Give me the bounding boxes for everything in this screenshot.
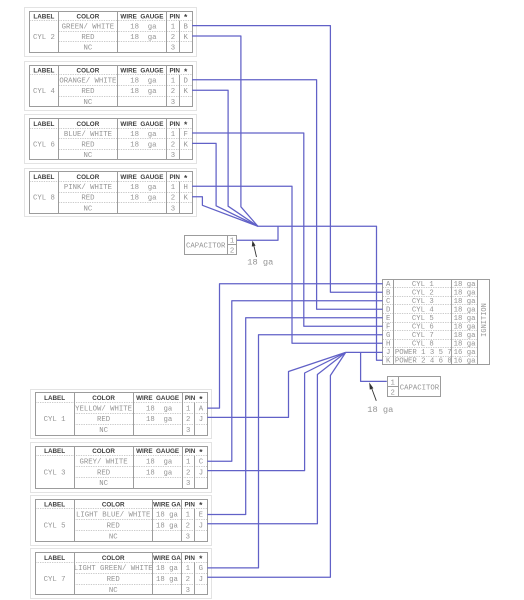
svg-text:LIGHT BLUE/ WHITE: LIGHT BLUE/ WHITE [76,512,150,520]
svg-text:B: B [386,290,391,298]
svg-text:PIN: PIN [184,501,195,508]
svg-text:2: 2 [186,576,190,584]
svg-text:LIGHT GREEN/ WHITE: LIGHT GREEN/ WHITE [74,565,153,573]
svg-text:NC: NC [99,480,108,488]
wire net J branch from CYL 1 pin 2 [207,352,345,417]
svg-text:PIN: PIN [185,395,196,402]
svg-text:PIN: PIN [169,121,180,128]
svg-text:H: H [184,184,188,192]
svg-text:WIRE GA: WIRE GA [153,501,181,508]
svg-text:*: * [184,120,188,130]
svg-text:RED: RED [81,141,95,149]
svg-text:18 ga: 18 ga [130,24,157,32]
svg-text:WIRE GAUGE: WIRE GAUGE [120,13,163,20]
svg-text:NC: NC [99,427,108,435]
svg-text:18 ga: 18 ga [156,565,179,573]
svg-text:PIN: PIN [185,448,196,455]
svg-text:*: * [199,447,203,457]
connector pinout table CYL 8 [25,169,197,217]
svg-text:CYL 6: CYL 6 [33,141,55,149]
svg-text:3: 3 [186,480,190,488]
capacitor C2 [387,377,440,398]
svg-text:RED: RED [107,576,121,584]
svg-text:18 ga: 18 ga [454,324,477,332]
svg-text:B: B [184,24,189,32]
connector pinout table CYL 6 [25,115,197,164]
connector U1 IGNITION [383,279,490,365]
capacitor C1 [185,236,238,256]
wire net K branch from CYL 6 pin 2 [192,143,258,226]
wire net K branch to capacitor C1 pin 1 [237,226,278,240]
connector pinout table CYL 1 [31,390,212,439]
svg-text:CYL 2: CYL 2 [412,290,434,298]
wire net A: CYL 1 pin 1 to IGNITION pin A [207,284,382,408]
svg-text:POWER 1 3 5 7: POWER 1 3 5 7 [395,349,452,357]
svg-text:1: 1 [391,380,396,388]
svg-text:C: C [386,298,391,306]
svg-text:18 ga: 18 ga [454,298,477,306]
wire net K branch from CYL 2 pin 2 [192,36,258,226]
svg-text:GREEN/ WHITE: GREEN/ WHITE [62,24,115,32]
svg-text:NC: NC [109,587,118,595]
svg-text:CYL 7: CYL 7 [44,576,66,584]
svg-text:*: * [184,66,188,76]
svg-text:WIRE GAUGE: WIRE GAUGE [136,448,179,455]
svg-text:18 ga: 18 ga [146,459,173,467]
connector pinout table CYL 2 [25,8,197,57]
connector pinout table CYL 4 [25,62,197,111]
svg-text:2: 2 [171,34,175,42]
wire net K branch from CYL 4 pin 2 [192,90,258,226]
svg-text:18 ga: 18 ga [156,576,179,584]
wire net H: CYL 8 pin 1 to IGNITION pin H [192,186,383,343]
svg-text:1: 1 [171,78,176,86]
svg-text:3: 3 [186,587,190,595]
svg-text:COLOR: COLOR [77,13,100,20]
svg-text:2: 2 [230,247,234,255]
svg-text:2: 2 [186,469,190,477]
svg-text:RED: RED [81,34,95,42]
svg-text:YELLOW/ WHITE: YELLOW/ WHITE [75,405,132,413]
svg-text:COLOR: COLOR [102,501,125,508]
svg-text:G: G [199,565,203,573]
leader arrow to capacitor C2 wire [369,382,376,400]
leader arrow to capacitor C1 wire [252,241,257,257]
svg-text:C: C [199,459,204,467]
svg-text:J: J [199,576,203,584]
svg-text:18 ga: 18 ga [130,184,157,192]
svg-text:18 ga: 18 ga [146,469,173,477]
svg-text:LABEL: LABEL [44,395,65,402]
svg-text:F: F [386,324,390,332]
svg-text:LABEL: LABEL [33,121,54,128]
wire net J branch from CYL 3 pin 2 [207,352,345,470]
svg-text:LABEL: LABEL [44,501,65,508]
svg-text:CYL 4: CYL 4 [412,307,435,315]
svg-text:D: D [386,307,391,315]
svg-text:E: E [386,315,390,323]
svg-text:18 ga: 18 ga [454,290,477,298]
svg-text:D: D [184,78,189,86]
svg-text:2: 2 [186,416,190,424]
svg-text:3: 3 [171,99,175,107]
svg-text:K: K [184,141,189,149]
svg-text:18 ga: 18 ga [130,131,157,139]
svg-text:COLOR: COLOR [77,68,100,75]
svg-text:16 ga: 16 ga [454,349,477,357]
wire net D: CYL 4 pin 1 to IGNITION pin D [192,80,383,309]
connector pinout table CYL 5 [31,496,212,546]
svg-text:ORANGE/ WHITE: ORANGE/ WHITE [59,78,116,86]
svg-text:F: F [184,131,188,139]
svg-text:CYL 1: CYL 1 [44,416,67,424]
wire net G: CYL 7 pin 1 to IGNITION pin G [207,335,382,568]
svg-text:*: * [199,394,203,404]
svg-text:*: * [184,12,188,22]
svg-text:PIN: PIN [184,555,195,562]
svg-text:LABEL: LABEL [44,448,65,455]
svg-text:18 ga: 18 ga [130,88,157,96]
svg-text:WIRE GAUGE: WIRE GAUGE [120,121,163,128]
svg-text:18 ga: 18 ga [130,34,157,42]
svg-text:18 ga: 18 ga [130,195,157,203]
wire net C: CYL 3 pin 1 to IGNITION pin C [207,301,382,462]
svg-text:RED: RED [107,523,121,531]
wire net K trunk to IGNITION pin K [258,226,383,360]
svg-text:BLUE/ WHITE: BLUE/ WHITE [64,131,112,139]
svg-text:CYL 2: CYL 2 [33,34,55,42]
svg-text:COLOR: COLOR [102,555,125,562]
svg-text:POWER 2 4 6 8: POWER 2 4 6 8 [395,358,452,366]
svg-text:COLOR: COLOR [77,174,100,181]
svg-text:PIN: PIN [169,174,180,181]
svg-text:NC: NC [84,45,93,53]
svg-text:18 ga: 18 ga [146,416,173,424]
wire net K branch from CYL 8 pin 2 [192,197,258,227]
svg-text:1: 1 [186,459,191,467]
svg-text:NC: NC [84,205,93,213]
wire net J trunk to IGNITION pin J [346,351,383,353]
svg-text:PIN: PIN [169,68,180,75]
svg-text:18 ga: 18 ga [454,307,477,315]
svg-text:CYL 8: CYL 8 [412,341,434,349]
svg-text:1: 1 [186,405,191,413]
connector pinout table CYL 3 [31,443,212,493]
svg-text:2: 2 [186,523,190,531]
svg-text:1: 1 [171,184,176,192]
svg-text:K: K [184,88,189,96]
svg-text:NC: NC [84,152,93,160]
svg-text:3: 3 [186,533,190,541]
svg-text:A: A [386,281,391,289]
wire net F: CYL 6 pin 1 to IGNITION pin F [192,133,383,326]
svg-text:COLOR: COLOR [92,448,115,455]
wire net E: CYL 5 pin 1 to IGNITION pin E [207,318,382,515]
svg-text:WIRE GAUGE: WIRE GAUGE [120,68,163,75]
svg-text:2: 2 [171,88,175,96]
svg-text:18 ga: 18 ga [247,258,273,268]
svg-text:18 ga: 18 ga [130,141,157,149]
svg-text:CYL 7: CYL 7 [412,332,434,340]
svg-text:RED: RED [81,195,95,203]
svg-text:E: E [199,512,203,520]
svg-text:1: 1 [171,24,176,32]
svg-text:18 ga: 18 ga [156,523,179,531]
svg-text:3: 3 [171,205,175,213]
svg-text:RED: RED [97,416,111,424]
svg-text:K: K [184,34,189,42]
svg-text:2: 2 [171,195,175,203]
svg-text:18 ga: 18 ga [454,332,477,340]
svg-text:A: A [199,405,204,413]
svg-text:WIRE GA: WIRE GA [153,555,181,562]
connector pinout table CYL 7 [31,549,212,599]
svg-text:18 ga: 18 ga [367,405,393,415]
svg-text:J: J [199,469,203,477]
svg-text:WIRE GAUGE: WIRE GAUGE [120,174,163,181]
svg-text:J: J [199,523,203,531]
svg-text:RED: RED [81,88,95,96]
svg-text:LABEL: LABEL [33,68,54,75]
wire net J branch to capacitor C2 pin 1 [361,352,387,381]
svg-text:3: 3 [186,427,190,435]
svg-text:NC: NC [109,533,118,541]
wire net B: CYL 2 pin 1 to IGNITION pin B [192,26,383,293]
svg-text:2: 2 [391,389,395,397]
svg-text:18 ga: 18 ga [156,512,179,520]
svg-text:3: 3 [171,45,175,53]
svg-text:CYL 8: CYL 8 [33,195,55,203]
svg-text:CYL 5: CYL 5 [44,523,66,531]
svg-text:1: 1 [230,238,235,246]
svg-text:CYL 1: CYL 1 [412,281,435,289]
svg-text:CYL 3: CYL 3 [44,469,66,477]
svg-text:CAPACITOR: CAPACITOR [400,385,440,393]
svg-text:H: H [386,341,390,349]
svg-text:RED: RED [97,469,111,477]
svg-text:GREY/ WHITE: GREY/ WHITE [80,459,128,467]
svg-text:1: 1 [171,131,176,139]
svg-text:COLOR: COLOR [77,121,100,128]
svg-text:*: * [184,173,188,183]
svg-text:PINK/ WHITE: PINK/ WHITE [64,184,112,192]
svg-text:IGNITION: IGNITION [481,303,489,337]
svg-text:*: * [199,500,203,510]
svg-text:CAPACITOR: CAPACITOR [186,243,226,251]
svg-text:NC: NC [84,99,93,107]
svg-text:J: J [386,349,390,357]
svg-text:G: G [386,332,390,340]
svg-text:COLOR: COLOR [92,395,115,402]
svg-text:LABEL: LABEL [44,555,65,562]
svg-text:CYL 6: CYL 6 [412,324,434,332]
svg-text:CYL 4: CYL 4 [33,88,56,96]
svg-text:18 ga: 18 ga [454,341,477,349]
svg-text:18 ga: 18 ga [130,78,157,86]
svg-text:16 ga: 16 ga [454,358,477,366]
svg-text:WIRE GAUGE: WIRE GAUGE [136,395,179,402]
svg-text:18 ga: 18 ga [454,281,477,289]
svg-text:18 ga: 18 ga [146,405,173,413]
svg-text:*: * [199,554,203,564]
wire net J branch from CYL 5 pin 2 [207,352,345,523]
svg-text:CYL 5: CYL 5 [412,315,434,323]
svg-text:LABEL: LABEL [33,13,54,20]
svg-text:CYL 3: CYL 3 [412,298,434,306]
svg-text:J: J [199,416,203,424]
svg-text:LABEL: LABEL [33,174,54,181]
svg-text:K: K [386,358,391,366]
svg-text:3: 3 [171,152,175,160]
wire net J branch from CYL 7 pin 2 [207,352,345,577]
svg-text:1: 1 [186,565,191,573]
svg-text:1: 1 [186,512,191,520]
svg-text:18 ga: 18 ga [454,315,477,323]
svg-text:PIN: PIN [169,13,180,20]
svg-text:K: K [184,195,189,203]
svg-text:2: 2 [171,141,175,149]
